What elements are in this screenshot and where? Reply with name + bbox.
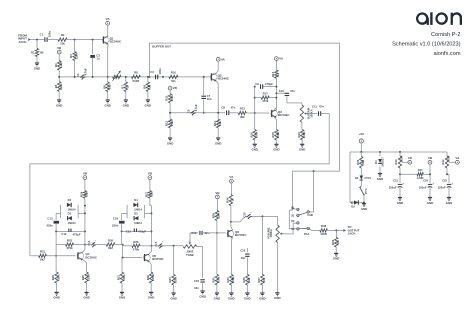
svg-text:120k: 120k xyxy=(74,52,78,59)
wire C1 to R2 xyxy=(47,39,58,41)
svg-text:GND: GND xyxy=(104,103,110,107)
svg-text:BC550C: BC550C xyxy=(235,233,247,237)
transistor Q1 xyxy=(103,36,122,44)
wire Q3 emitter down xyxy=(274,117,276,130)
wire Q1 emitter down xyxy=(107,44,109,77)
resistor R3 xyxy=(69,40,78,77)
svg-text:FSB: FSB xyxy=(308,213,313,217)
svg-text:C6: C6 xyxy=(187,109,191,113)
svg-text:1N914: 1N914 xyxy=(134,221,142,225)
svg-text:C16: C16 xyxy=(113,216,119,220)
svg-text:100R: 100R xyxy=(86,274,90,281)
svg-text:GND: GND xyxy=(228,296,234,300)
capacitor C21 xyxy=(389,178,405,197)
subtitle schematic version xyxy=(392,42,461,48)
wire stage3 base row xyxy=(30,255,57,257)
svg-text:220uF: 220uF xyxy=(389,185,397,189)
capacitor C11 xyxy=(312,104,324,116)
svg-text:R15: R15 xyxy=(271,71,275,77)
svg-text:100R: 100R xyxy=(276,132,280,139)
wire Q6 emitter xyxy=(231,237,232,274)
svg-text:470k: 470k xyxy=(262,99,269,103)
svg-text:100R: 100R xyxy=(400,156,404,162)
ground below R36 xyxy=(244,293,250,300)
resistor R1 xyxy=(31,40,44,63)
resistor R34 xyxy=(226,183,235,223)
svg-text:C1: C1 xyxy=(40,32,44,36)
svg-text:PTC: PTC xyxy=(364,188,368,193)
svg-text:Schematic v1.0 (10/6/2023): Schematic v1.0 (10/6/2023) xyxy=(392,42,461,48)
resistor R2 xyxy=(58,33,67,45)
svg-text:C18: C18 xyxy=(194,279,200,283)
wire protection branch xyxy=(350,152,353,203)
resistor R42 xyxy=(441,156,451,183)
svg-text:220n: 220n xyxy=(112,224,119,228)
capacitor C15 row xyxy=(121,229,152,234)
svg-text:R19: R19 xyxy=(297,132,301,138)
svg-text:4.7uF: 4.7uF xyxy=(84,68,88,75)
resistor R39 xyxy=(331,230,340,253)
potentiometer SUSTAIN xyxy=(300,105,313,123)
svg-text:GND: GND xyxy=(397,201,403,205)
ground below R37 xyxy=(259,293,265,300)
resistor R10 xyxy=(162,71,178,83)
svg-text:1N5817: 1N5817 xyxy=(380,157,384,167)
svg-text:+9V: +9V xyxy=(359,132,364,136)
switch contact B3 xyxy=(291,220,299,224)
svg-text:R40: R40 xyxy=(394,159,398,164)
wire C20 to volume xyxy=(252,215,278,217)
svg-text:C11: C11 xyxy=(312,104,317,108)
resistor R26 xyxy=(106,239,123,251)
svg-text:BUFFER OUT: BUFFER OUT xyxy=(152,45,171,49)
svg-text:+: + xyxy=(452,181,454,185)
svg-text:R2: R2 xyxy=(61,33,65,37)
ground below R30 xyxy=(214,293,220,300)
svg-text:8k2: 8k2 xyxy=(108,246,113,250)
zener D3 xyxy=(355,168,372,186)
wire VA to Q2 collector xyxy=(216,61,218,73)
svg-text:100k: 100k xyxy=(56,274,60,281)
ground below R7 xyxy=(123,100,129,107)
label BUFFER OUT xyxy=(152,45,171,49)
net VA stage5 xyxy=(229,175,234,183)
resistor R18 emitter xyxy=(271,130,280,145)
resistor R32 xyxy=(146,272,155,292)
svg-text:GND: GND xyxy=(170,296,176,300)
output arrow xyxy=(343,229,346,232)
capacitor C12 row xyxy=(55,229,85,237)
ground below D1 xyxy=(377,174,383,181)
capacitor C14 xyxy=(87,239,99,247)
svg-text:GND: GND xyxy=(427,201,433,205)
resistor R21 xyxy=(39,250,76,262)
svg-text:C4: C4 xyxy=(76,73,80,77)
svg-text:JACK: JACK xyxy=(348,232,357,236)
svg-text:R25: R25 xyxy=(81,275,85,281)
resistor R12 xyxy=(165,113,174,138)
svg-text:100R: 100R xyxy=(320,232,327,236)
potentiometer VOLUME xyxy=(266,216,283,242)
ground below R33 xyxy=(170,293,176,300)
net VB input buffer xyxy=(57,46,62,54)
wire R2 to Q1 base xyxy=(67,39,103,41)
diode D2 reverse xyxy=(351,200,365,208)
svg-text:GND: GND xyxy=(148,296,154,300)
svg-text:R9: R9 xyxy=(143,85,147,89)
svg-text:D5: D5 xyxy=(134,212,138,216)
svg-text:+: + xyxy=(403,181,405,185)
svg-text:1k2: 1k2 xyxy=(247,277,251,282)
wire Q6 collector xyxy=(231,222,233,230)
svg-text:BC550C: BC550C xyxy=(85,255,97,259)
resistor R13 xyxy=(238,107,246,119)
label TO OUTPUT JACK xyxy=(348,225,360,235)
svg-text:R26: R26 xyxy=(108,239,114,243)
svg-text:150k: 150k xyxy=(170,120,174,127)
resistor R35 emitter xyxy=(226,274,235,293)
ground below R12 xyxy=(167,138,173,145)
svg-text:5k1: 5k1 xyxy=(171,79,176,83)
net VA above Q2 xyxy=(216,57,225,61)
net VB flag xyxy=(428,156,433,164)
ground below R25 xyxy=(83,292,89,299)
svg-text:100k: 100k xyxy=(217,276,221,283)
capacitor C24 xyxy=(419,178,435,197)
svg-text:D4: D4 xyxy=(134,198,138,202)
ground below R6 xyxy=(104,100,110,107)
svg-text:R17: R17 xyxy=(263,91,269,95)
svg-text:R21: R21 xyxy=(40,250,46,254)
svg-text:1k: 1k xyxy=(126,85,130,89)
svg-text:220k: 220k xyxy=(59,83,63,90)
svg-text:C15: C15 xyxy=(126,229,132,233)
svg-text:GND: GND xyxy=(145,103,151,107)
svg-text:1u: 1u xyxy=(96,57,100,61)
ground below R16 xyxy=(251,144,257,151)
resistor R33 tone shunt xyxy=(168,246,177,293)
svg-text:R6: R6 xyxy=(102,85,106,89)
svg-text:R35: R35 xyxy=(226,277,230,283)
svg-text:1M: 1M xyxy=(336,240,340,245)
ground below C21 xyxy=(397,198,403,205)
net VB stage4 xyxy=(148,172,153,180)
svg-text:R22: R22 xyxy=(51,275,55,281)
svg-text:C5V1: C5V1 xyxy=(364,176,371,180)
resistor R36 xyxy=(242,274,251,293)
svg-text:C13: C13 xyxy=(47,216,53,220)
wire sustain wiper to C11 xyxy=(308,113,317,115)
trimmer T1 xyxy=(112,71,121,81)
resistor R7 xyxy=(120,76,129,100)
resistor R17 xyxy=(255,91,277,103)
diode rails stage3 xyxy=(56,205,85,218)
wire tone wiper up xyxy=(189,233,191,241)
svg-text:47n: 47n xyxy=(290,89,295,93)
svg-text:aionfx.com: aionfx.com xyxy=(433,51,460,57)
wire buffer out xyxy=(149,43,339,209)
ground below C24 xyxy=(427,198,433,205)
svg-text:GND: GND xyxy=(167,141,173,145)
resistor R29 bias xyxy=(212,199,221,233)
capacitor C10 xyxy=(276,89,302,105)
svg-text:GND: GND xyxy=(244,296,250,300)
capacitor C6 xyxy=(187,104,199,115)
transistor Q6 xyxy=(227,230,247,239)
resistor R15 xyxy=(271,60,280,78)
svg-text:47n: 47n xyxy=(231,106,236,110)
wire Q4 collector xyxy=(83,245,85,253)
wire VB column xyxy=(429,164,431,183)
wire Q5 collector xyxy=(149,246,151,254)
svg-text:C20: C20 xyxy=(243,212,247,217)
ground below R19 xyxy=(299,144,305,151)
capacitor C1 xyxy=(40,31,52,42)
ground below R1 xyxy=(34,63,40,70)
svg-text:BC550C: BC550C xyxy=(152,257,164,261)
resistor R4 xyxy=(54,54,63,77)
capacitor C17 xyxy=(154,240,166,248)
wire input to B1 xyxy=(292,208,297,210)
ground below R18 xyxy=(273,144,279,151)
wire input to C1 xyxy=(31,39,44,41)
capacitor C7 xyxy=(201,76,211,114)
capacitor C13 xyxy=(47,213,60,231)
svg-text:R41: R41 xyxy=(418,168,423,172)
svg-text:10k: 10k xyxy=(262,277,266,282)
svg-text:100R: 100R xyxy=(302,132,306,139)
capacitor C18 xyxy=(194,279,205,291)
transistor Q4 xyxy=(77,252,98,261)
svg-text:100uF: 100uF xyxy=(419,185,427,189)
svg-text:100R: 100R xyxy=(231,277,235,284)
svg-text:BC549C: BC549C xyxy=(278,113,290,117)
svg-text:R12: R12 xyxy=(165,120,169,126)
wire C8 to R13 xyxy=(229,112,238,114)
ground below R31 xyxy=(119,292,125,299)
diode D1 xyxy=(374,152,384,174)
svg-text:10n: 10n xyxy=(241,256,246,260)
svg-text:R8: R8 xyxy=(134,71,138,75)
resistor R37 xyxy=(257,216,266,293)
svg-text:R3: R3 xyxy=(69,54,73,58)
svg-text:C22: C22 xyxy=(240,249,246,253)
wire 9V rail xyxy=(350,143,447,153)
svg-text:R29: R29 xyxy=(212,212,216,218)
svg-text:100k: 100k xyxy=(170,95,174,102)
switch FSB xyxy=(299,211,313,218)
svg-text:R18: R18 xyxy=(271,132,275,138)
diode D3 stage3 xyxy=(68,212,76,225)
net VA flag xyxy=(449,156,460,164)
net VB stage5 xyxy=(215,191,220,199)
input pin arrow xyxy=(28,38,31,41)
wire buffer to FSB common xyxy=(310,171,314,212)
capacitor C8 xyxy=(221,106,235,116)
svg-text:TONE: TONE xyxy=(186,253,194,257)
capacitor C23 xyxy=(438,178,454,197)
svg-text:C9: C9 xyxy=(255,82,259,86)
svg-text:R4: R4 xyxy=(54,63,58,67)
resistor R6 xyxy=(102,77,111,100)
svg-text:C2: C2 xyxy=(150,70,154,74)
svg-text:D2: D2 xyxy=(351,204,355,208)
svg-text:100k: 100k xyxy=(173,276,177,283)
svg-text:510R: 510R xyxy=(133,79,140,83)
net VD flag xyxy=(402,156,413,164)
svg-text:1k: 1k xyxy=(276,72,280,76)
svg-text:GND: GND xyxy=(34,66,40,70)
wire R38 to output xyxy=(327,229,343,231)
resistor R30 base gnd xyxy=(212,233,221,293)
resistor R5 xyxy=(54,77,63,100)
wire Q5 emitter xyxy=(149,261,151,272)
svg-text:FSA: FSA xyxy=(304,232,309,236)
svg-text:470pF: 470pF xyxy=(265,82,273,86)
net VB stage3 xyxy=(83,172,88,180)
svg-text:1K2: 1K2 xyxy=(361,159,365,164)
svg-text:R28: R28 xyxy=(133,240,139,244)
svg-text:R14: R14 xyxy=(213,120,217,126)
switch FSA xyxy=(299,227,309,236)
transistor Q3 xyxy=(271,110,290,118)
svg-text:Cornish P-2: Cornish P-2 xyxy=(431,32,461,38)
svg-text:100k: 100k xyxy=(255,131,259,138)
wire collector to C20 xyxy=(231,216,247,222)
ground below C18 xyxy=(199,291,205,298)
wire stage3 base col xyxy=(55,231,57,272)
ground below R5 xyxy=(56,100,62,107)
svg-text:C12: C12 xyxy=(61,232,67,236)
wire volume wiper xyxy=(284,223,297,234)
svg-text:100n: 100n xyxy=(158,68,162,75)
net +9V xyxy=(359,132,364,143)
svg-text:C8: C8 xyxy=(221,106,225,110)
svg-text:D3: D3 xyxy=(68,212,72,216)
svg-text:R38: R38 xyxy=(321,224,327,228)
svg-text:GND: GND xyxy=(214,296,220,300)
resistor R23 xyxy=(56,239,85,251)
fuse PTC xyxy=(359,186,368,203)
capacitor C4 xyxy=(76,68,88,80)
resistor R27 xyxy=(145,180,154,247)
resistor R28 xyxy=(123,240,152,252)
svg-text:10k: 10k xyxy=(218,121,222,126)
svg-text:100k: 100k xyxy=(122,274,126,281)
diode D5 stage4 xyxy=(134,212,142,225)
diode D4 stage4 xyxy=(133,198,142,211)
ground below R39 xyxy=(333,253,339,260)
svg-text:470k: 470k xyxy=(133,247,140,251)
svg-text:BC549C: BC549C xyxy=(110,40,122,44)
ground below C23 xyxy=(446,198,452,205)
svg-text:C24: C24 xyxy=(423,178,428,182)
wire interstage row xyxy=(169,112,225,114)
svg-text:GND: GND xyxy=(273,148,279,152)
svg-text:R24: R24 xyxy=(80,191,84,197)
svg-text:C14: C14 xyxy=(87,240,91,245)
svg-text:15k: 15k xyxy=(85,192,89,197)
svg-text:GND: GND xyxy=(199,294,205,298)
svg-text:GND: GND xyxy=(299,148,305,152)
svg-text:GND: GND xyxy=(123,103,129,107)
svg-text:R39: R39 xyxy=(331,239,335,245)
wire tone right leg xyxy=(197,247,203,278)
svg-text:GND: GND xyxy=(251,148,257,152)
aion logo xyxy=(416,12,462,25)
net VA above R15 xyxy=(275,57,284,61)
ground below R35 xyxy=(228,293,234,300)
resistor R19 sustain bottom xyxy=(297,122,306,144)
svg-text:R11: R11 xyxy=(165,95,169,100)
wire bypass detour xyxy=(289,210,296,229)
resistor R31 xyxy=(117,272,126,292)
wire volume bottom xyxy=(276,243,278,293)
ground below volume xyxy=(274,293,280,300)
svg-text:GND: GND xyxy=(83,296,89,300)
resistor R9 xyxy=(143,76,152,100)
capacitor C19 xyxy=(191,231,225,235)
svg-text:R7: R7 xyxy=(120,85,124,89)
svg-text:1N914: 1N914 xyxy=(134,208,142,212)
svg-text:100R: 100R xyxy=(151,274,155,281)
wire sustain to stage3 xyxy=(30,114,329,256)
capacitor C9 xyxy=(255,82,276,89)
svg-text:R32: R32 xyxy=(146,275,150,281)
svg-text:1.2M: 1.2M xyxy=(59,61,63,68)
svg-text:100k: 100k xyxy=(217,212,221,219)
svg-text:R31: R31 xyxy=(117,275,121,281)
capacitor C2 xyxy=(150,68,162,79)
wire Q3 collector column xyxy=(274,78,277,110)
capacitor C20 xyxy=(243,211,255,219)
svg-text:100n: 100n xyxy=(47,31,51,38)
resistor R41 xyxy=(400,168,430,180)
svg-text:1k: 1k xyxy=(231,198,235,202)
svg-text:C10: C10 xyxy=(279,89,285,93)
svg-text:GND: GND xyxy=(274,296,280,300)
svg-text:8k2: 8k2 xyxy=(40,257,45,261)
svg-text:1M: 1M xyxy=(148,84,152,89)
wire stage4 out row xyxy=(151,245,183,247)
wire FSA to R38 xyxy=(309,229,320,231)
wire stage3 out row xyxy=(85,244,106,246)
wire VD node xyxy=(399,173,401,175)
svg-text:GND: GND xyxy=(259,296,265,300)
ground power entry xyxy=(361,204,367,211)
resistor R20 supply xyxy=(356,152,365,168)
svg-text:R13: R13 xyxy=(240,107,246,111)
svg-text:15k: 15k xyxy=(150,192,154,197)
ground below R9 xyxy=(145,100,151,107)
subtitle aionfx.com xyxy=(433,51,460,57)
wire stage4 base col xyxy=(122,231,142,272)
resistor R11 xyxy=(165,90,174,113)
net VA above Q1 xyxy=(106,17,111,25)
wire VA to Q1 collector xyxy=(107,25,109,36)
svg-text:1N914: 1N914 xyxy=(68,208,76,212)
net VD above R11 xyxy=(168,86,178,90)
resistor R22 xyxy=(51,272,60,292)
svg-text:1N914: 1N914 xyxy=(68,221,76,225)
wire Q6 base row xyxy=(190,232,218,234)
svg-text:C19: C19 xyxy=(191,231,197,235)
svg-text:R33: R33 xyxy=(168,277,172,283)
title Cornish P-2 xyxy=(431,32,461,38)
diode rails stage4 xyxy=(122,205,152,218)
diode D2 stage3 xyxy=(67,198,76,211)
svg-text:R36: R36 xyxy=(242,277,246,283)
